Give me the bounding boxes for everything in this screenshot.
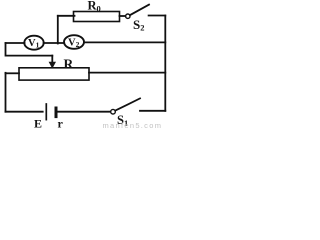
svg-text:manfen5.com: manfen5.com (103, 121, 163, 130)
svg-text:V2: V2 (68, 37, 80, 48)
svg-text:r: r (58, 117, 64, 131)
svg-text:V1: V1 (28, 38, 40, 49)
svg-text:R: R (64, 57, 74, 72)
svg-text:E: E (34, 117, 42, 131)
